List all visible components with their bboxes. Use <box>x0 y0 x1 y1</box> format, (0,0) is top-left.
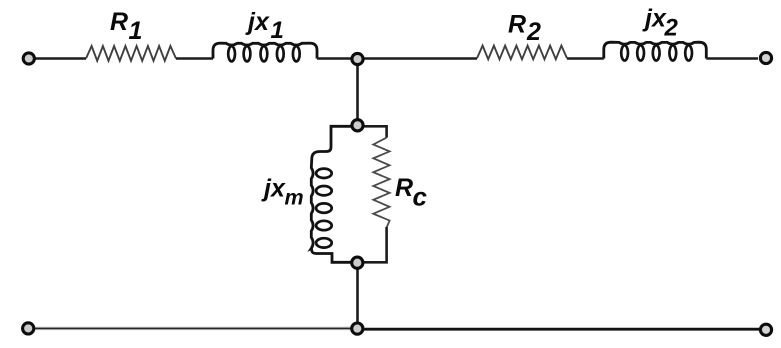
resistor Rc (vertical) <box>373 138 389 228</box>
wire: top-left terminal to R1 <box>35 57 86 59</box>
wire: Rc bottom lead to node B <box>364 227 387 262</box>
terminal top-left <box>23 53 34 64</box>
svg-text:R: R <box>110 8 128 36</box>
node A (top junction) <box>352 53 363 64</box>
svg-text:1: 1 <box>271 17 284 44</box>
node: top of magnetizing branch <box>352 120 363 131</box>
svg-text:jx: jx <box>261 174 286 202</box>
svg-text:jx: jx <box>245 8 270 36</box>
wire: box top to Rc branch <box>358 126 387 137</box>
terminal top-right <box>760 52 771 63</box>
node: bottom of magnetizing branch <box>352 257 363 268</box>
wire: R1 to jx1 <box>176 57 213 59</box>
wire: jx1 to node A <box>317 57 351 59</box>
terminal bottom-left <box>23 323 34 334</box>
svg-text:R: R <box>395 174 413 202</box>
wire: R2 to jx2 <box>567 57 604 59</box>
svg-text:c: c <box>413 181 428 211</box>
terminal bottom-right <box>760 324 771 335</box>
svg-text:R: R <box>508 11 526 39</box>
wire: jx2 to top-right terminal <box>706 57 758 59</box>
svg-text:2: 2 <box>664 15 679 42</box>
resistor R2 <box>477 46 567 60</box>
resistor R1 <box>86 46 176 61</box>
svg-text:m: m <box>285 185 304 209</box>
inductor jxm (vertical, with leads) <box>311 126 356 262</box>
wire: node B down to bottom rail <box>356 268 359 323</box>
svg-text:2: 2 <box>526 18 541 46</box>
wire: node A down to magnetizing branch <box>356 60 359 119</box>
inductor jx1 <box>213 43 317 58</box>
bottom rail left (thin) <box>34 327 351 330</box>
svg-text:1: 1 <box>129 17 143 45</box>
inductor jx2 <box>604 42 707 58</box>
node: bottom rail junction <box>352 323 363 334</box>
svg-text:jx: jx <box>642 5 667 33</box>
wire: node A to R2 <box>364 57 477 59</box>
bottom rail right (thick) <box>364 328 759 331</box>
